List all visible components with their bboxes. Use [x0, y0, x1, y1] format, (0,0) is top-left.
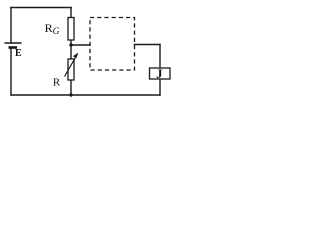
wire relay J bottom lead	[159, 79, 161, 95]
battery E	[5, 43, 22, 48]
wire junction A to dashed box	[71, 44, 90, 46]
resistor R body (adjustable)	[68, 59, 74, 80]
wire left rail lower	[10, 49, 12, 96]
wire down to relay J	[159, 45, 161, 69]
dashed control box	[90, 18, 135, 71]
svg-text:R: R	[45, 21, 53, 35]
arrow of adjustable resistor R	[65, 53, 79, 77]
wire top rail	[11, 7, 71, 9]
svg-text:G: G	[53, 27, 60, 37]
node B junction dot (bottom rail)	[69, 93, 72, 96]
wire bottom rail	[11, 94, 160, 96]
svg-text:E: E	[15, 48, 22, 59]
node A junction dot (RG/R junction)	[69, 43, 72, 46]
wire R bottom lead	[70, 80, 72, 95]
relay J box	[150, 68, 171, 79]
svg-text:R: R	[53, 76, 61, 88]
wire RG top lead	[70, 8, 72, 18]
resistor RG body	[68, 18, 74, 41]
wire left rail upper	[10, 8, 12, 43]
wire RG bottom to R top	[70, 40, 72, 59]
svg-text:J: J	[156, 67, 162, 81]
wire dashed box to corner	[135, 44, 161, 46]
